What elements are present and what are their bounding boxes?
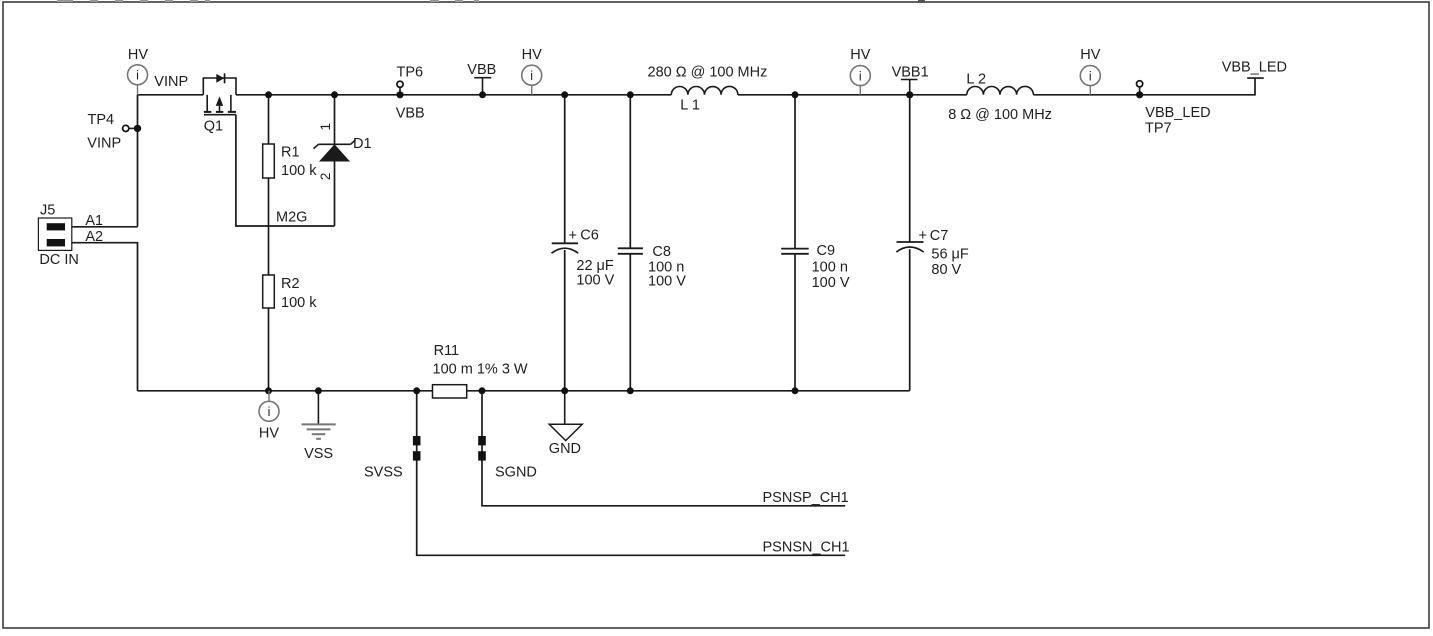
- ground GND (open triangle): [549, 391, 582, 441]
- junction TP6 on VBB rail: [396, 91, 403, 98]
- svg-text:VBB: VBB: [396, 106, 425, 122]
- svg-text:280 Ω @ 100 MHz: 280 Ω @ 100 MHz: [648, 64, 768, 80]
- junction R1 top on VBB rail: [265, 91, 272, 98]
- svg-text:GND: GND: [549, 441, 581, 457]
- wire D1 bottom stub to M2G: [334, 162, 336, 227]
- svg-text:i: i: [1089, 69, 1092, 83]
- junction D1 top on VBB rail: [331, 91, 338, 98]
- svg-text:100 n: 100 n: [812, 260, 848, 276]
- resistor R11: [433, 385, 467, 398]
- test point TP7: [1137, 81, 1143, 92]
- test point TP4: [123, 125, 142, 132]
- connector J5: [38, 218, 71, 250]
- svg-text:i: i: [268, 405, 271, 419]
- svg-text:TP6: TP6: [397, 65, 424, 81]
- svg-text:D1: D1: [353, 136, 372, 152]
- svg-text:A2: A2: [85, 229, 103, 245]
- wire VBB from Q1 drain to L1: [236, 94, 671, 96]
- svg-text:1: 1: [318, 123, 333, 131]
- net flag VBB1: [901, 80, 918, 95]
- wire D1 top stub: [334, 95, 336, 145]
- wire SVSS vertical and PSNSN_CH1 line: [417, 391, 846, 556]
- junction R11 right / SGND: [479, 387, 486, 394]
- svg-text:2: 2: [318, 173, 333, 181]
- resistor R1: [263, 144, 275, 178]
- capacitor C8: [618, 248, 643, 254]
- test point HV (current probe) at VINP: [128, 65, 148, 95]
- zener diode D1: [314, 140, 356, 162]
- capacitor C9: [781, 249, 809, 254]
- wire R1 top stub: [268, 95, 270, 144]
- inductor L2: [967, 86, 1034, 94]
- svg-text:100 k: 100 k: [281, 163, 317, 179]
- ground VSS (earth symbol): [302, 391, 336, 439]
- net tie squares SVSS: [413, 436, 421, 461]
- wire VINP vertical from rail down through TP4 to J5 pin A1: [137, 95, 139, 227]
- wire C6 top stub: [564, 95, 566, 244]
- svg-text:HV: HV: [259, 425, 279, 441]
- svg-text:+: +: [569, 228, 577, 244]
- junction C9 bottom: [792, 387, 799, 394]
- junction R11 left / SVSS: [413, 387, 420, 394]
- wire C9 top stub: [794, 95, 796, 249]
- wire R2 top stub from M2G: [268, 226, 270, 275]
- svg-text:C6: C6: [580, 227, 599, 243]
- wire VSS bottom rail: [138, 390, 910, 392]
- wire C8 bottom stub: [629, 254, 631, 391]
- junction TP7 on rail: [1136, 91, 1143, 98]
- wire R2 bottom stub to VSS rail: [268, 308, 270, 391]
- junction C6 bottom / GND: [561, 387, 568, 394]
- svg-text:C7: C7: [930, 228, 949, 244]
- transistor Q1 (P-FET with body diode): [203, 78, 236, 115]
- wire C7 top stub from VBB1 node: [909, 95, 911, 242]
- wire C7 bottom stub: [909, 249, 911, 390]
- svg-text:M2G: M2G: [276, 210, 307, 226]
- svg-text:8 Ω @ 100 MHz: 8 Ω @ 100 MHz: [948, 107, 1052, 123]
- svg-text:HV: HV: [128, 47, 148, 63]
- junction C6 top on rail: [561, 91, 568, 98]
- svg-text:VBB_LED: VBB_LED: [1145, 105, 1210, 121]
- svg-text:100 V: 100 V: [648, 274, 686, 290]
- svg-text:PSNSP_CH1: PSNSP_CH1: [763, 490, 849, 506]
- svg-text:L 1: L 1: [680, 98, 700, 114]
- svg-text:SVSS: SVSS: [364, 465, 403, 481]
- capacitor C7 (electrolytic): [896, 242, 923, 252]
- junction C9 top on rail: [792, 91, 799, 98]
- svg-text:C8: C8: [652, 244, 671, 260]
- resistor R2: [263, 275, 275, 308]
- svg-text:HV: HV: [522, 47, 542, 63]
- svg-text:VBB1: VBB1: [892, 64, 929, 80]
- svg-text:HV: HV: [1080, 47, 1100, 63]
- svg-text:TP7: TP7: [1145, 120, 1172, 136]
- capacitor C6 (electrolytic): [552, 243, 579, 253]
- junction VBB flag on rail: [479, 91, 486, 98]
- svg-text:100 k: 100 k: [281, 295, 317, 311]
- svg-text:A1: A1: [85, 213, 103, 229]
- svg-text:L 2: L 2: [966, 72, 986, 88]
- test point HV at VSS rail: [259, 391, 279, 422]
- svg-text:C9: C9: [817, 243, 836, 259]
- svg-text:VINP: VINP: [87, 136, 121, 152]
- svg-text:VINP: VINP: [154, 74, 188, 90]
- wire C9 bottom stub: [794, 254, 796, 391]
- svg-text:22 μF: 22 μF: [576, 258, 614, 274]
- svg-text:100 m 1% 3 W: 100 m 1% 3 W: [433, 361, 528, 377]
- test point HV at C9: [850, 66, 870, 95]
- wire VBB from L1 to L2: [738, 94, 967, 96]
- junction C8 bottom: [627, 387, 634, 394]
- inductor L1: [671, 86, 738, 94]
- svg-text:VBB_LED: VBB_LED: [1222, 60, 1287, 76]
- svg-text:100 V: 100 V: [576, 273, 614, 289]
- test point HV at VBB: [522, 65, 542, 95]
- wire M2G net (Q1 gate down and across to D1): [236, 115, 335, 226]
- svg-text:i: i: [530, 69, 533, 83]
- svg-text:i: i: [136, 69, 139, 83]
- wire J5 pin A1 horizontal: [72, 226, 138, 228]
- svg-text:100 V: 100 V: [812, 275, 850, 291]
- svg-text:56 μF: 56 μF: [931, 247, 969, 263]
- net flag VBB_LED: [1247, 77, 1264, 79]
- svg-text:80 V: 80 V: [931, 262, 961, 278]
- junction VSS ground on rail: [315, 387, 322, 394]
- svg-text:R11: R11: [434, 343, 460, 359]
- svg-text:TP4: TP4: [88, 112, 115, 128]
- junction C8 top on rail: [627, 91, 634, 98]
- wire C6 bottom stub: [564, 250, 566, 391]
- junction VBB1 node: [906, 91, 913, 98]
- net tie squares SGND: [478, 436, 486, 461]
- svg-text:+: +: [919, 228, 927, 244]
- wire R1 bottom stub to M2G: [268, 178, 270, 226]
- svg-text:SGND: SGND: [495, 465, 537, 481]
- wire C8 top stub: [629, 95, 631, 249]
- junction R2 bottom on VSS rail: [265, 387, 272, 394]
- svg-text:i: i: [859, 69, 862, 83]
- svg-text:PSNSN_CH1: PSNSN_CH1: [763, 539, 850, 555]
- wire VBB_LED from L2 to right corner, up to flag: [1033, 78, 1255, 95]
- wire J5 pin A2 to bottom rail: [72, 243, 138, 391]
- svg-text:VBB: VBB: [467, 62, 496, 78]
- svg-text:VSS: VSS: [304, 446, 333, 462]
- svg-text:DC IN: DC IN: [39, 252, 78, 268]
- wire VINP from HV corner to Q1 source: [138, 94, 204, 96]
- test point TP6: [397, 81, 403, 92]
- net flag VBB: [474, 78, 491, 95]
- test point HV at VBB_LED: [1080, 66, 1100, 95]
- svg-text:J5: J5: [40, 203, 55, 219]
- svg-text:R2: R2: [281, 276, 300, 292]
- svg-text:Q1: Q1: [204, 119, 223, 135]
- wire SGND vertical and PSNSP_CH1 line: [482, 391, 845, 506]
- svg-text:HV: HV: [850, 47, 870, 63]
- svg-text:R1: R1: [281, 145, 300, 161]
